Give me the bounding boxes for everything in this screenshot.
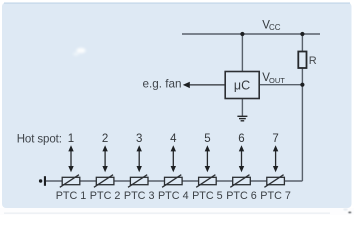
svg-text:PTC 2: PTC 2 (90, 190, 121, 202)
svg-text:PTC 5: PTC 5 (192, 190, 223, 202)
svg-text:Hot spot:: Hot spot: (17, 134, 62, 146)
svg-text:PTC 4: PTC 4 (158, 190, 189, 202)
svg-text:μC: μC (234, 79, 250, 93)
svg-text:R: R (309, 55, 317, 67)
svg-text:7: 7 (272, 133, 278, 145)
svg-text:PTC 1: PTC 1 (56, 190, 87, 202)
svg-text:PTC 6: PTC 6 (226, 190, 257, 202)
svg-text:3: 3 (136, 133, 142, 145)
svg-text:4: 4 (170, 133, 177, 145)
svg-text:1: 1 (68, 133, 74, 145)
svg-text:6: 6 (238, 133, 244, 145)
svg-text:2: 2 (102, 133, 108, 145)
svg-text:PTC 7: PTC 7 (260, 190, 291, 202)
svg-text:OUT: OUT (269, 76, 285, 85)
svg-text:CC: CC (269, 23, 281, 32)
svg-text:PTC 3: PTC 3 (124, 190, 155, 202)
svg-text:e.g. fan: e.g. fan (143, 78, 182, 91)
svg-text:5: 5 (204, 133, 210, 145)
